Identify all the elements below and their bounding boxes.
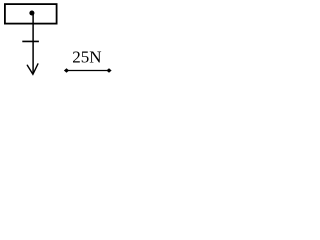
dimension line — [67, 70, 110, 72]
dimension end diamond right — [106, 68, 111, 73]
wire vertical shaft — [32, 12, 34, 74]
wire cross tick — [22, 40, 39, 42]
block rectangle — [5, 4, 57, 24]
background — [0, 0, 115, 79]
pivot dot — [29, 10, 34, 15]
arrowhead down — [27, 64, 38, 74]
svg-text:25N: 25N — [72, 47, 101, 66]
dimension end diamond left — [64, 68, 69, 73]
